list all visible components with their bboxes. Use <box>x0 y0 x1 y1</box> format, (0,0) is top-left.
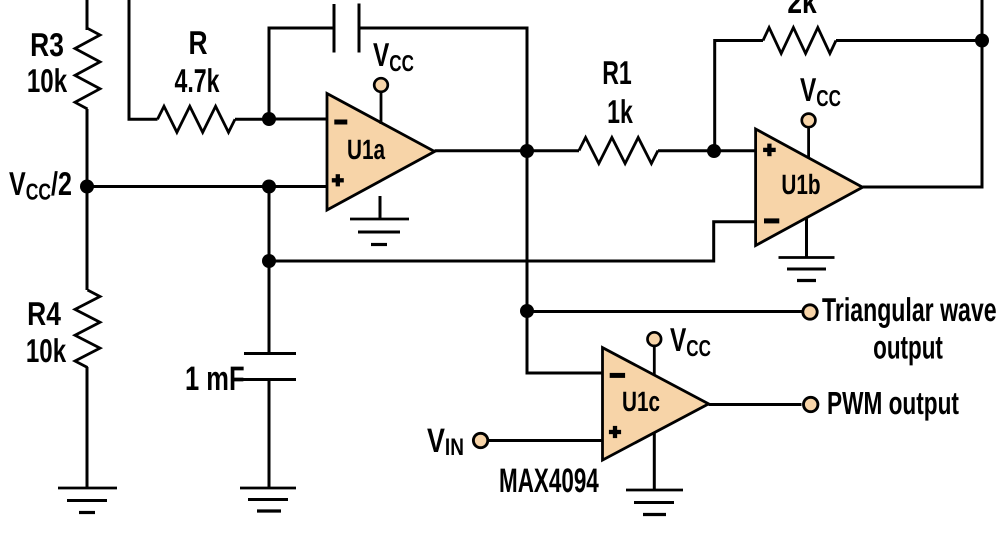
ground (1mF) <box>240 488 296 511</box>
label 10k (R4 value) <box>26 332 67 369</box>
wire: divider bottom <box>86 367 89 488</box>
wire: R1 to U1b + input <box>658 149 756 152</box>
wire: R4.7k to inverting node <box>235 118 269 121</box>
svg-text:MAX4094: MAX4094 <box>499 462 599 500</box>
capacitor 1 mF <box>240 354 296 380</box>
wire: triangular wave output <box>527 310 802 313</box>
resistor R1 <box>579 138 658 164</box>
label MAX4094 <box>499 462 599 500</box>
label R1 <box>602 54 632 91</box>
wire: R4.7k left vertical <box>129 0 158 119</box>
label VCC/2 <box>9 165 72 205</box>
svg-text:10k: 10k <box>26 332 67 369</box>
svg-text:1k: 1k <box>607 93 633 130</box>
label U1b <box>781 169 820 200</box>
svg-text:Triangular wave: Triangular wave <box>822 291 997 328</box>
VCC pin (U1a) <box>374 78 388 124</box>
ground (U1c) <box>626 432 683 515</box>
label U1c <box>622 386 660 417</box>
wire: output vertical down to U1c <box>527 151 603 373</box>
node VCC/2 junction <box>80 180 94 194</box>
ground (U1b) <box>779 218 835 281</box>
svg-text:R4: R4 <box>27 295 61 332</box>
label 4.7k <box>175 62 220 99</box>
wire: VIN to U1c + input <box>489 439 603 442</box>
wire: 2k right to feedback node <box>836 39 982 42</box>
label R3 <box>30 26 64 63</box>
wire: capacitor right to U1a output <box>359 28 527 151</box>
wire: junction up to feedback capacitor <box>269 28 334 119</box>
resistor R3 <box>75 28 100 109</box>
wire: U1a - input wire <box>269 118 327 121</box>
svg-text:U1a: U1a <box>347 134 385 165</box>
terminal: PWM output <box>804 397 818 411</box>
op-amp U1b <box>756 129 863 246</box>
node: U1b + input junction <box>707 144 721 158</box>
svg-text:1 mF: 1 mF <box>185 360 245 398</box>
op-amp U1a <box>327 94 435 211</box>
ground (U1a) <box>350 196 409 245</box>
VCC pin (U1b) <box>802 114 816 158</box>
wire: 1mF capacitor top lead <box>268 261 271 353</box>
svg-text:R3: R3 <box>30 26 64 63</box>
label 1 mF <box>185 360 245 398</box>
VCC pin (U1c) <box>648 332 662 375</box>
label VCC (U1a) <box>373 36 414 76</box>
label VCC (U1b) <box>800 71 841 111</box>
resistor R4 <box>75 290 100 368</box>
label R4 <box>27 295 61 332</box>
wire: left divider top stub <box>86 0 89 30</box>
wire: 1mF bottom lead <box>268 380 271 489</box>
node: feedback junction <box>975 34 989 48</box>
label 2k <box>787 0 817 20</box>
node: U1a output junction <box>520 144 534 158</box>
wire: 2k left vertical <box>715 41 763 152</box>
wire: right vertical feedback <box>863 0 982 187</box>
wire: U1b - input network <box>269 222 756 261</box>
svg-text:R: R <box>188 24 207 61</box>
svg-text:U1b: U1b <box>781 169 820 200</box>
wire: divider middle <box>86 109 89 290</box>
label R <box>188 24 207 61</box>
wire: VCC/2 rail to U1a + input <box>87 185 327 188</box>
label VCC (U1c) <box>670 321 711 361</box>
svg-text:10k: 10k <box>27 62 68 99</box>
node: lower rail junction <box>262 254 276 268</box>
svg-text:4.7k: 4.7k <box>175 62 220 99</box>
wire: junction down to lower rail <box>268 187 271 262</box>
label output (triangular) <box>873 329 943 366</box>
svg-text:U1c: U1c <box>622 386 660 417</box>
node: U1a inverting input junction <box>262 112 276 126</box>
label 1k <box>607 93 633 130</box>
resistor R 4.7k <box>158 106 236 132</box>
capacitor C (integrator feedback) <box>334 4 359 53</box>
label PWM output <box>827 385 959 421</box>
terminal: triangular wave output <box>803 305 817 319</box>
ground (R4) <box>58 488 117 513</box>
terminal: VIN input <box>473 433 487 447</box>
wire: U1c output (PWM) <box>709 403 802 406</box>
label 10k (R3 value) <box>27 62 68 99</box>
svg-text:PWM output: PWM output <box>827 385 959 421</box>
resistor 2k <box>763 28 836 54</box>
svg-text:R1: R1 <box>602 54 632 91</box>
node: triangular output junction <box>520 304 534 318</box>
svg-text:output: output <box>873 329 943 366</box>
label Triangular wave <box>822 291 997 328</box>
svg-text:2k: 2k <box>787 0 817 20</box>
op-amp U1c <box>603 348 709 461</box>
label VIN <box>427 422 464 461</box>
wire: U1a output <box>435 149 579 152</box>
node: + input junction <box>262 180 276 194</box>
label U1a <box>347 134 385 165</box>
